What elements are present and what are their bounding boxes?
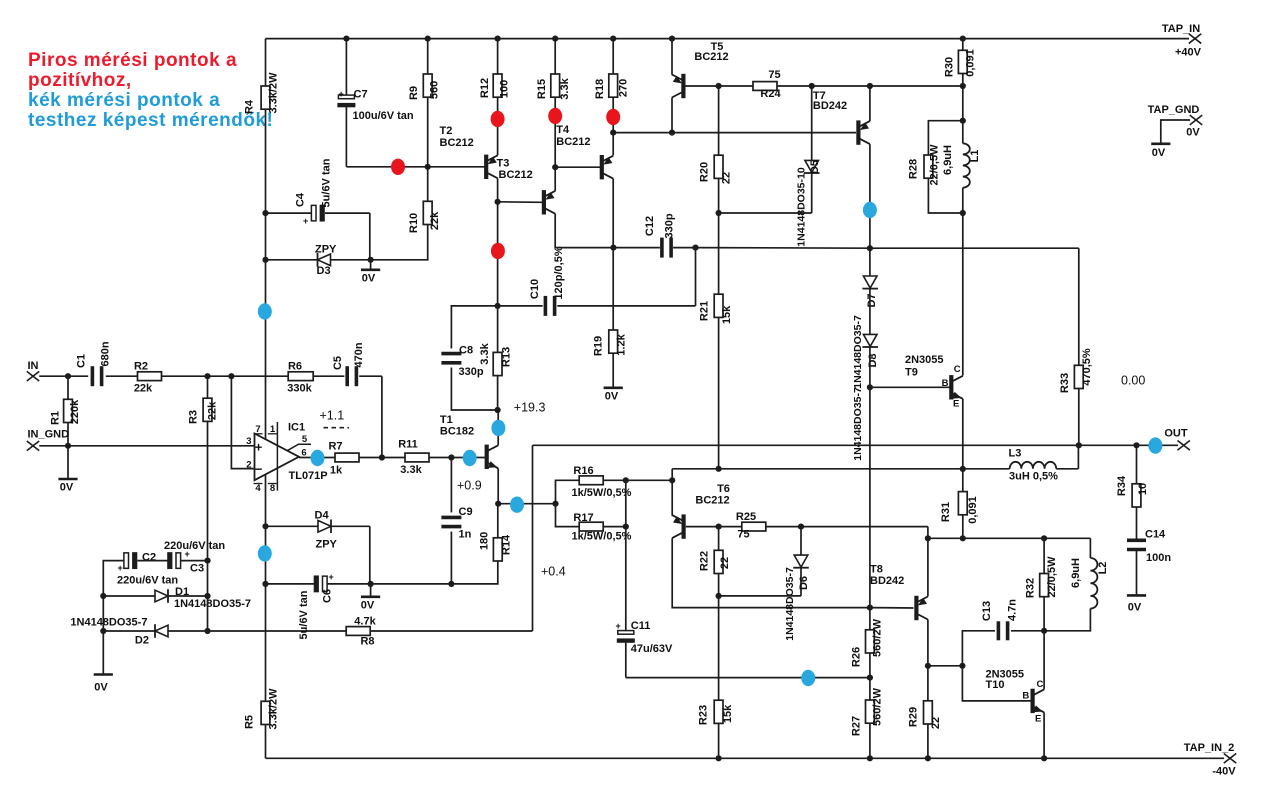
resistor R3 <box>188 376 219 424</box>
inductor L1 <box>942 121 981 213</box>
resistor R19 <box>593 248 628 356</box>
svg-text:R14: R14 <box>501 534 513 555</box>
svg-text:470,5%: 470,5% <box>1081 348 1093 386</box>
op-amp pin4 <box>254 483 263 494</box>
svg-text:C1: C1 <box>76 354 88 368</box>
resistor R1 <box>50 376 82 425</box>
measure point blue T7 collector <box>863 202 877 218</box>
wire D4 to C6 row <box>369 526 371 584</box>
svg-text:180: 180 <box>479 532 491 550</box>
wire R23 to rail <box>718 723 720 758</box>
resistor R10 <box>408 167 441 233</box>
svg-text:R20: R20 <box>699 162 711 182</box>
svg-text:R31: R31 <box>940 502 952 522</box>
junction R16R17 left rail <box>552 501 558 507</box>
svg-text:TAP_IN_2: TAP_IN_2 <box>1184 742 1235 754</box>
junction D3 row <box>262 257 268 263</box>
resistor R8 <box>208 616 533 648</box>
svg-text:B: B <box>942 378 949 389</box>
wire emitter link row <box>672 468 1010 470</box>
wire feedback to pin2 <box>231 376 254 468</box>
resistor R5 <box>244 688 280 730</box>
wire D6 bottom to R22 <box>719 595 801 597</box>
resistor R29 <box>908 701 943 729</box>
wire C7 to T3 base row <box>346 166 485 168</box>
svg-text:3.3k: 3.3k <box>400 464 422 476</box>
capacitor C3 <box>138 540 226 575</box>
measure point blue C11 <box>801 670 815 686</box>
svg-text:R27: R27 <box>851 716 863 736</box>
svg-text:R29: R29 <box>908 707 920 727</box>
svg-text:1N4148DO35-7: 1N4148DO35-7 <box>852 387 864 461</box>
svg-text:TL071P: TL071P <box>289 470 328 482</box>
wire R15 to emitter node <box>554 97 556 167</box>
wire emitter link corner <box>671 469 673 481</box>
resistor R16 <box>556 465 632 504</box>
wire T4 collector to C12 row <box>612 179 614 248</box>
svg-text:R9: R9 <box>408 86 420 100</box>
resistor R21 <box>699 294 734 324</box>
svg-text:22k: 22k <box>134 383 153 395</box>
wire R2 to R6 <box>162 375 289 377</box>
transistor T10 <box>986 669 1045 725</box>
svg-text:R33: R33 <box>1059 373 1071 393</box>
diode D6 <box>784 527 810 641</box>
capacitor C10 <box>498 246 696 316</box>
junction top rail C7 <box>343 36 349 42</box>
svg-text:100u/6V tan: 100u/6V tan <box>353 110 414 122</box>
wire opamp out row <box>299 457 335 459</box>
wire opamp pin4 to D4 node <box>265 474 267 526</box>
svg-text:BC212: BC212 <box>695 495 729 507</box>
wire L3 to OUT row <box>1077 446 1079 469</box>
svg-text:E: E <box>953 399 959 410</box>
svg-text:R1: R1 <box>50 411 62 425</box>
svg-text:R34: R34 <box>1116 475 1128 496</box>
svg-text:330k: 330k <box>287 383 312 395</box>
svg-text:C12: C12 <box>644 216 656 236</box>
svg-text:0V: 0V <box>361 600 375 612</box>
wire R18 to T4 emitter node <box>612 97 614 132</box>
label T2 <box>440 125 474 149</box>
svg-text:0,091: 0,091 <box>967 496 979 524</box>
measure point blue opamp V+ <box>258 303 272 319</box>
junction rail R23 <box>716 755 722 761</box>
svg-text:3.3k: 3.3k <box>479 342 491 364</box>
svg-text:5u/6V tan: 5u/6V tan <box>321 158 333 207</box>
junction C6 ground node <box>368 581 374 587</box>
resistor R27 <box>851 687 884 736</box>
svg-text:560/2W: 560/2W <box>872 618 884 657</box>
capacitor C2 <box>103 552 178 597</box>
terminal TAP_GND <box>1148 104 1203 159</box>
svg-text:330p: 330p <box>664 213 676 238</box>
op-amp pin6 label <box>301 448 306 459</box>
svg-text:22k: 22k <box>207 401 219 420</box>
ground D3 row <box>361 260 380 285</box>
resistor R26 <box>851 608 884 667</box>
wire R3 down to C3 node <box>207 421 209 560</box>
ground C6 <box>361 584 380 612</box>
label +0.4 <box>541 565 566 579</box>
svg-text:22/0,5W: 22/0,5W <box>929 144 941 186</box>
svg-text:TAP_IN: TAP_IN <box>1162 23 1200 35</box>
junction D1 left <box>100 593 106 599</box>
junction feedback node <box>228 373 234 379</box>
junction emitter rail R31 <box>960 535 966 541</box>
svg-text:R21: R21 <box>699 301 711 321</box>
svg-text:+40V: +40V <box>1175 47 1202 59</box>
svg-text:120p/0,5%: 120p/0,5% <box>553 246 565 299</box>
svg-text:Piros mérési pontok a: Piros mérési pontok a <box>28 50 237 71</box>
svg-text:C2: C2 <box>142 552 156 564</box>
transistor T9 <box>870 354 963 410</box>
resistor R17 <box>556 504 632 543</box>
junction D5 top <box>809 83 815 89</box>
svg-text:C7: C7 <box>354 89 368 101</box>
ground R19 <box>604 353 623 402</box>
terminal IN_GND <box>27 429 255 451</box>
svg-text:TAP_GND: TAP_GND <box>1148 104 1200 116</box>
svg-text:1N4148DO35-7: 1N4148DO35-7 <box>784 567 796 641</box>
wire T6 base <box>686 526 719 528</box>
junction C12 row <box>692 245 698 251</box>
resistor R11 <box>398 439 429 477</box>
measure point red R12 <box>491 111 505 127</box>
resistor R25 <box>719 511 766 541</box>
svg-text:T4: T4 <box>556 124 570 136</box>
capacitor C4 <box>266 158 370 226</box>
svg-text:0V: 0V <box>94 682 108 694</box>
junction D5 row <box>716 210 722 216</box>
wire T8 emitter corner <box>927 527 929 539</box>
wire T10 emitter <box>1043 712 1045 758</box>
measure point blue opamp out <box>311 450 325 466</box>
junction R9 bottom row <box>425 164 431 170</box>
svg-text:kék mérési pontok a: kék mérési pontok a <box>28 90 220 111</box>
resistor R9 <box>408 39 441 100</box>
wire T3 collector <box>497 178 499 202</box>
svg-text:BC182: BC182 <box>440 426 474 438</box>
diode D8 <box>852 289 879 461</box>
junction IN node <box>65 373 71 379</box>
wire L1 to T9 collector <box>962 213 964 376</box>
wire C4 to D3 row <box>369 213 371 260</box>
svg-text:BC212: BC212 <box>499 169 533 181</box>
wire T4 emitter <box>612 133 614 156</box>
wire T10 collector <box>1043 631 1045 690</box>
capacitor C6 <box>266 572 371 639</box>
junction rail T10 <box>1041 755 1047 761</box>
junction rail R27 <box>867 755 873 761</box>
wire R22 node to R23 <box>718 596 720 700</box>
svg-text:R30: R30 <box>944 57 956 77</box>
wire T2mid collector <box>555 214 613 248</box>
junction OUT row R34 <box>1133 442 1139 448</box>
junction rail R29 <box>925 755 931 761</box>
junction +19.3 node <box>495 407 501 413</box>
junction T8 collector node <box>925 663 931 669</box>
op-amp pin8 <box>268 483 277 494</box>
svg-text:220u/6V tan: 220u/6V tan <box>117 575 178 587</box>
capacitor C14 <box>1127 507 1171 595</box>
label +19.3 <box>514 401 546 415</box>
junction R20 top <box>716 83 722 89</box>
wire feedback down to R8 <box>532 445 534 631</box>
svg-text:+: + <box>616 621 621 631</box>
wire OUT row <box>533 444 1179 446</box>
wire D1 col down <box>207 596 209 631</box>
svg-text:R13: R13 <box>501 347 513 367</box>
svg-text:T10: T10 <box>986 679 1005 691</box>
junction T8 base node <box>867 605 873 611</box>
svg-text:R15: R15 <box>536 79 548 99</box>
svg-text:C8: C8 <box>459 345 473 357</box>
svg-text:C9: C9 <box>459 506 473 518</box>
diode D7 <box>852 248 878 389</box>
svg-text:D3: D3 <box>317 265 331 277</box>
junction D1 right <box>204 593 210 599</box>
junction emitter row left <box>495 501 501 507</box>
svg-text:BD242: BD242 <box>813 100 847 112</box>
svg-text:+1.1: +1.1 <box>320 409 345 423</box>
junction C10 row left <box>495 303 501 309</box>
wire R20 to D5 row <box>718 178 720 213</box>
svg-text:R28: R28 <box>908 159 920 179</box>
svg-text:560/2W: 560/2W <box>872 687 884 726</box>
junction T6 emitter node <box>669 477 675 483</box>
svg-text:1N4148DO35-10: 1N4148DO35-10 <box>796 167 808 247</box>
junction T10 branch <box>959 663 965 669</box>
resistor R13 <box>479 306 513 376</box>
svg-text:8: 8 <box>270 483 275 494</box>
junction top rail R9 <box>425 36 431 42</box>
resistor R30 <box>944 39 977 77</box>
svg-text:ZPY: ZPY <box>315 244 337 256</box>
junction R17 right <box>623 524 629 530</box>
junction top rail R18 <box>610 36 616 42</box>
svg-text:0V: 0V <box>1152 147 1166 159</box>
wire T5 collector <box>671 98 673 133</box>
svg-text:-40V: -40V <box>1212 766 1236 778</box>
capacitor C9 <box>441 458 472 584</box>
wire D4 node to C6 node <box>265 526 267 584</box>
junction OUT row R33 <box>1076 442 1082 448</box>
svg-text:E: E <box>1035 714 1041 725</box>
resistor R14 <box>479 504 513 561</box>
svg-text:R18: R18 <box>594 79 606 99</box>
resistor R31 <box>940 469 979 524</box>
wire T8 collector <box>927 620 929 666</box>
wire C12 row to D7 column <box>696 247 870 250</box>
svg-text:BD242: BD242 <box>870 575 904 587</box>
resistor R24 <box>753 69 781 100</box>
wire R16R17 right rail <box>625 480 627 526</box>
wire R1 to IN_GND <box>67 423 69 446</box>
svg-text:0V: 0V <box>60 482 74 494</box>
svg-text:C11: C11 <box>631 620 651 632</box>
junction T4 base node <box>552 164 558 170</box>
junction R7-R11 node <box>379 454 385 460</box>
transistor T7 <box>813 86 870 145</box>
svg-text:1k: 1k <box>330 465 343 477</box>
wire C12 row to R33 <box>870 247 1079 249</box>
svg-text:IN: IN <box>28 360 39 372</box>
transistor T2mid <box>544 190 556 214</box>
ground D2 <box>94 631 113 694</box>
wire R12 to T3 emitter <box>497 97 499 155</box>
junction T9 base node <box>867 384 873 390</box>
capacitor C1 <box>68 341 138 386</box>
resistor R4 <box>244 39 280 114</box>
wire R13 to +19.3 node <box>497 376 499 410</box>
capacitor C5 <box>313 342 382 386</box>
resistor R7 <box>328 441 359 477</box>
junction D4 row <box>262 523 268 529</box>
wire T7 base row <box>613 132 856 134</box>
svg-text:pozitívhoz,: pozitívhoz, <box>28 70 132 91</box>
svg-text:47u/63V: 47u/63V <box>631 643 673 655</box>
svg-text:C13: C13 <box>981 601 993 621</box>
resistor R15 <box>536 39 571 100</box>
svg-text:+: + <box>329 572 334 582</box>
wire T1 emitter row <box>498 503 555 505</box>
wire -40V bottom rail <box>266 757 1225 759</box>
wire T9 emitter <box>962 399 964 469</box>
wire R20-R21 link <box>718 213 720 294</box>
junction top rail R15 <box>552 36 558 42</box>
svg-text:1k/5W/0,5%: 1k/5W/0,5% <box>572 487 632 499</box>
junction R3 top <box>204 373 210 379</box>
wire R32 bottom <box>1043 597 1045 631</box>
svg-text:BC212: BC212 <box>556 136 590 148</box>
svg-text:0V: 0V <box>1128 602 1142 614</box>
svg-text:15k: 15k <box>721 305 733 324</box>
label T4 <box>556 124 590 148</box>
measure point blue T1 collector <box>491 420 505 436</box>
junction R22 bottom node <box>716 593 722 599</box>
svg-text:3uH 0,5%: 3uH 0,5% <box>1009 471 1058 483</box>
svg-text:T8: T8 <box>870 564 883 576</box>
svg-text:3: 3 <box>246 436 251 447</box>
resistor R12 <box>479 39 511 99</box>
diode D4 <box>266 510 370 551</box>
svg-text:R26: R26 <box>851 647 863 667</box>
svg-text:B: B <box>1022 691 1029 702</box>
annotation text red line 2 <box>28 70 132 91</box>
junction T4 collector node <box>610 245 616 251</box>
wire R21 to emitter link row <box>718 317 720 468</box>
svg-text:1N4148DO35-7: 1N4148DO35-7 <box>174 598 251 610</box>
measure point red T3 collector <box>491 243 505 259</box>
op-amp pin5 <box>287 434 311 451</box>
junction R22 top <box>716 524 722 530</box>
wire D8 to T9 base <box>869 347 871 387</box>
svg-text:R3: R3 <box>188 410 200 424</box>
wire T8 base <box>870 607 914 609</box>
svg-text:T6: T6 <box>717 483 730 495</box>
svg-text:+: + <box>118 563 123 573</box>
op-amp IC1 <box>246 422 327 483</box>
wire D5 row link <box>719 212 812 214</box>
svg-text:+19.3: +19.3 <box>514 401 546 415</box>
svg-text:R10: R10 <box>408 213 420 233</box>
svg-text:4: 4 <box>255 483 261 494</box>
junction L1 bottom <box>960 210 966 216</box>
annotation text blue line 4 <box>28 110 273 131</box>
junction C13 right <box>1041 628 1047 634</box>
junction top rail R30 <box>960 36 966 42</box>
svg-text:R17: R17 <box>573 512 593 524</box>
svg-text:+: + <box>255 440 263 455</box>
diode D2 <box>70 617 207 647</box>
wire R3 col C3 to D1 <box>207 561 209 596</box>
measure point red R15 <box>548 108 562 124</box>
junction IN_GND node <box>65 443 71 449</box>
svg-text:680n: 680n <box>100 341 112 366</box>
svg-text:R7: R7 <box>328 441 342 453</box>
svg-text:0V: 0V <box>605 391 619 403</box>
junction T4 emitter node <box>610 130 616 136</box>
op-amp pin1 <box>268 422 278 491</box>
ground C14 <box>1127 595 1146 613</box>
label +1.1 <box>320 409 350 428</box>
capacitor C8 <box>441 306 497 410</box>
wire R22 bottom <box>718 574 720 596</box>
svg-text:+0.4: +0.4 <box>541 565 566 579</box>
svg-text:C14: C14 <box>1145 529 1166 541</box>
resistor R6 <box>287 361 313 395</box>
junction D2 left <box>100 628 106 634</box>
svg-text:1n: 1n <box>459 529 472 541</box>
wire R31 to emitter rail <box>962 515 964 539</box>
svg-text:220k: 220k <box>69 399 81 424</box>
transistor T1 <box>440 414 498 469</box>
junction R26-R27 node <box>867 675 873 681</box>
svg-text:L3: L3 <box>1009 448 1022 460</box>
svg-text:22: 22 <box>719 557 731 569</box>
wire R33 to OUT row <box>1078 389 1080 446</box>
wire C5 to R7 node <box>381 376 383 457</box>
transistor T6 <box>672 480 730 539</box>
svg-text:75: 75 <box>768 69 780 81</box>
svg-text:R25: R25 <box>736 511 756 523</box>
resistor R20 <box>699 86 733 184</box>
label 0.00 <box>1121 374 1145 388</box>
wire R25 to T8 emitter corner <box>766 526 928 528</box>
annotation text red line 1 <box>28 50 237 71</box>
svg-text:10: 10 <box>1137 483 1149 495</box>
svg-text:C: C <box>1037 679 1044 690</box>
junction C9 bottom <box>448 581 454 587</box>
terminal OUT <box>1164 428 1190 451</box>
terminal TAP_IN_2 <box>1184 742 1237 778</box>
label +0.9 <box>457 479 482 493</box>
wire T4 base wire <box>555 166 600 168</box>
svg-text:+0.9: +0.9 <box>457 479 482 493</box>
transistor T8 <box>870 564 928 621</box>
inductor L2 <box>1044 538 1109 631</box>
measure point blue OUT <box>1148 437 1162 453</box>
svg-text:4.7n: 4.7n <box>1007 599 1019 621</box>
svg-text:6,9uH: 6,9uH <box>942 145 954 175</box>
svg-text:560: 560 <box>429 81 441 99</box>
svg-text:100: 100 <box>499 80 511 98</box>
op-amp pin7 <box>254 424 263 435</box>
svg-text:R5: R5 <box>244 715 256 729</box>
svg-text:5: 5 <box>302 434 308 445</box>
junction T7 emitter node <box>867 83 873 89</box>
